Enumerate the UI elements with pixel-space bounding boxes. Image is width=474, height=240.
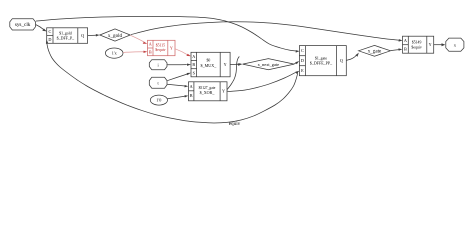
wire t to XOR A	[167, 84, 188, 87]
svg-text:C: C	[301, 48, 304, 53]
svg-text:x: x	[454, 42, 457, 47]
wire DFF Q to x_gold	[88, 34, 100, 37]
svg-text:$_MUX_: $_MUX_	[201, 63, 218, 68]
svg-text:x_gate: x_gate	[368, 49, 382, 55]
flip-flop $1_gold $_DFF_P_	[47, 28, 88, 44]
svg-text:A: A	[190, 84, 193, 89]
wire 1'x to $5115 B (red)	[123, 51, 147, 53]
svg-text:Y: Y	[224, 62, 227, 67]
node x_gate	[359, 45, 391, 56]
input port t	[149, 77, 167, 88]
wire x_next_gate to DFFE D	[294, 61, 299, 64]
svg-text:C: C	[49, 29, 52, 34]
svg-text:B: B	[149, 49, 152, 54]
wire XOR Y to x_next_gate (vertical curve)	[227, 57, 241, 90]
flip-flop $1_gate $_DFFE_PP_	[299, 46, 346, 76]
constant 1'x	[105, 48, 123, 58]
wire x_gate to $5149 B	[391, 48, 403, 50]
svg-text:$_DFFE_PP_: $_DFFE_PP_	[310, 60, 333, 65]
xor cell $5127_gate $_XOR_	[189, 82, 228, 101]
input port i	[149, 60, 167, 70]
svg-text:A: A	[149, 42, 152, 47]
wire sys_clk to DFF C	[36, 25, 47, 32]
svg-text:B: B	[190, 93, 193, 98]
input port sys_clk	[10, 19, 36, 30]
mux cell $0 $_MUX_	[191, 52, 230, 77]
svg-text:sys_clk: sys_clk	[15, 22, 31, 28]
svg-text:E: E	[301, 68, 304, 73]
node x_next_gate	[243, 59, 295, 70]
wire x_gate to DFF D (bottom sweep)	[46, 39, 298, 123]
svg-text:1'x: 1'x	[112, 51, 118, 56]
equiv cell $5115 $equiv (red)	[148, 40, 176, 55]
svg-text:Q: Q	[81, 33, 84, 38]
svg-text:A: A	[192, 54, 195, 59]
svg-text:i: i	[158, 62, 160, 67]
svg-text:$_DFF_P_: $_DFF_P_	[57, 35, 76, 40]
svg-text:Y: Y	[222, 89, 225, 94]
wire MUX Y to x_next_gate	[230, 63, 242, 66]
wire x_gold to $5115 A (red)	[130, 35, 147, 44]
svg-text:Q: Q	[340, 58, 343, 63]
node x_gold	[100, 29, 130, 41]
wire DFFE Q to x_gate	[347, 53, 359, 61]
svg-text:$equiv: $equiv	[155, 48, 165, 52]
wire $5115 Y to MUX A (red)	[175, 49, 191, 57]
wire $5149 Y to output x	[434, 43, 445, 46]
equiv cell $5149 $equiv	[403, 36, 434, 53]
output port x	[446, 38, 464, 51]
svg-text:D: D	[301, 58, 304, 63]
wire x_gold to $5149 A (long)	[131, 22, 403, 42]
svg-text:Y: Y	[170, 45, 173, 50]
wire XOR Y to DFFE E	[227, 71, 299, 92]
svg-text:1'0: 1'0	[156, 98, 161, 103]
svg-text:t: t	[158, 80, 160, 85]
wire sys_clk to DFFE C (long top curve)	[36, 16, 300, 52]
svg-text:$5149: $5149	[412, 41, 422, 45]
svg-text:$_XOR_: $_XOR_	[200, 90, 216, 95]
svg-text:B: B	[192, 62, 195, 67]
svg-text:D: D	[48, 37, 51, 42]
constant 1'0	[150, 95, 167, 105]
svg-text:A: A	[404, 38, 407, 43]
wire t to MUX S	[167, 73, 191, 81]
svg-text:equiv: equiv	[229, 121, 241, 127]
svg-text:$equiv: $equiv	[411, 45, 421, 49]
svg-text:$5115: $5115	[156, 43, 165, 47]
svg-text:Y: Y	[429, 42, 432, 47]
svg-text:x_gold: x_gold	[108, 33, 123, 39]
wire 1'0 to XOR B	[168, 95, 189, 99]
svg-text:B: B	[404, 46, 407, 51]
svg-text:$0: $0	[207, 59, 211, 63]
svg-text:x_next_gate: x_next_gate	[258, 62, 280, 67]
wire i to MUX B	[167, 64, 191, 66]
svg-text:S: S	[193, 70, 196, 75]
